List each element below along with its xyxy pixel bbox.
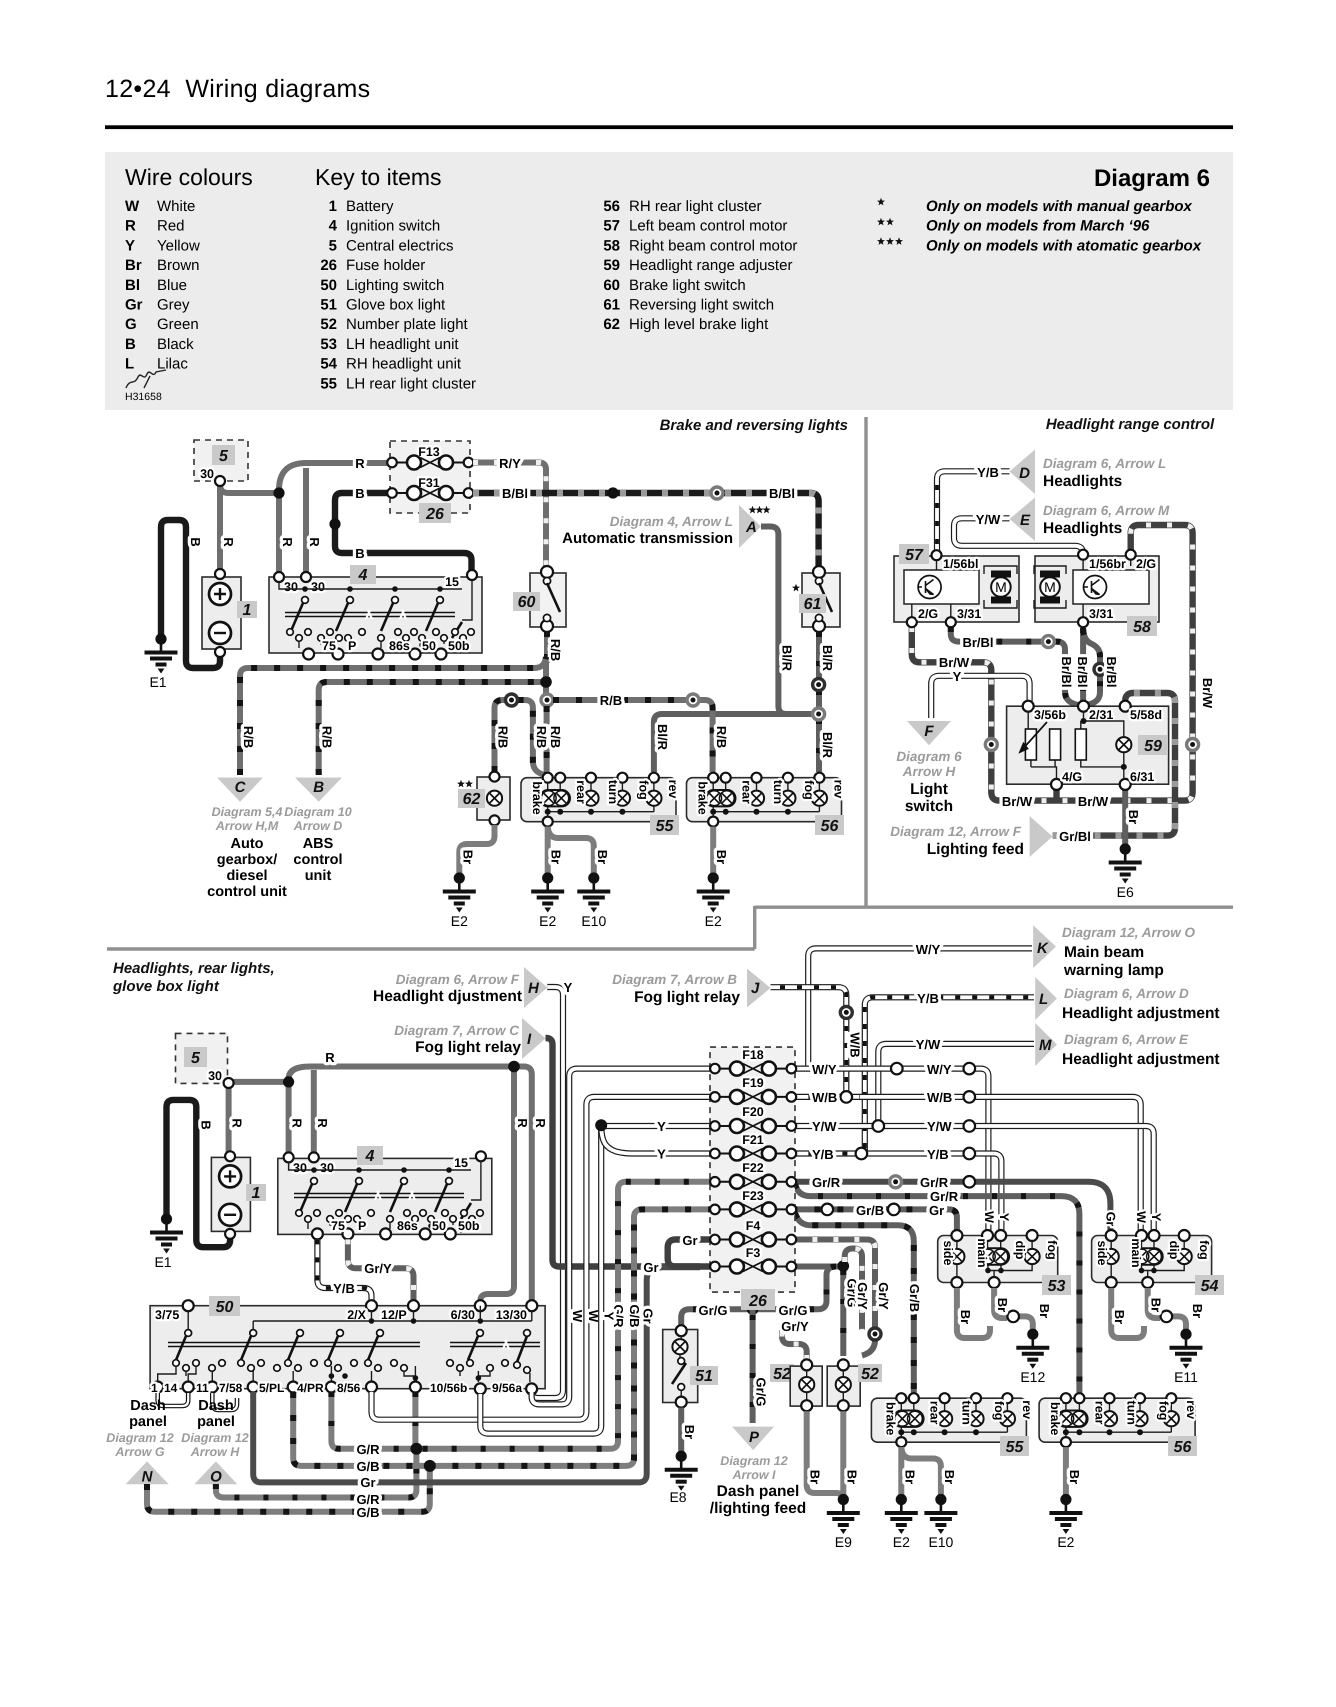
svg-text:panel: panel — [129, 1414, 167, 1430]
svg-text:rev: rev — [1020, 1400, 1034, 1419]
svg-text:58: 58 — [603, 237, 620, 254]
svg-text:Br: Br — [1126, 810, 1141, 824]
svg-text:Fog light relay: Fog light relay — [415, 1039, 521, 1056]
wire Br/Bl loop branch — [1083, 630, 1100, 705]
wire R/B junction down to cluster 55 brake — [544, 706, 550, 772]
svg-text:26: 26 — [425, 506, 444, 523]
svg-text:Gr/G: Gr/G — [699, 1303, 728, 1318]
svg-text:W/B: W/B — [847, 1032, 862, 1057]
headlight unit 54 — [1092, 1236, 1212, 1283]
wire Br cluster 56 lower to E2 — [1063, 1447, 1069, 1495]
svg-text:R/B: R/B — [320, 726, 335, 748]
svg-text:fog: fog — [1197, 1240, 1211, 1259]
svg-text:Diagram 12: Diagram 12 — [181, 1431, 248, 1445]
svg-text:1: 1 — [252, 1185, 261, 1202]
svg-text:R: R — [125, 218, 136, 235]
wire Y/B ignition 75 to lighting switch 2/X — [317, 1239, 371, 1302]
svg-text:Gr: Gr — [125, 297, 143, 314]
svg-text:RH headlight unit: RH headlight unit — [346, 356, 462, 373]
svg-text:turn: turn — [960, 1401, 974, 1425]
svg-text:50: 50 — [422, 639, 436, 653]
svg-text:W/Y: W/Y — [927, 1062, 952, 1077]
wire Br glove box light to ground E8 — [678, 1408, 684, 1452]
svg-text:Lighting switch: Lighting switch — [346, 277, 444, 294]
svg-text:Only on models with atomatic g: Only on models with atomatic gearbox — [926, 237, 1202, 254]
svg-text:fog: fog — [1157, 1401, 1171, 1420]
svg-text:switch: switch — [905, 798, 953, 815]
rear light cluster 56 — [687, 778, 842, 822]
svg-text:62: 62 — [463, 791, 481, 808]
svg-text:main: main — [975, 1238, 989, 1267]
svg-text:turn: turn — [606, 780, 620, 804]
svg-text:4/PR: 4/PR — [297, 1381, 324, 1395]
svg-text:W: W — [1134, 1211, 1148, 1223]
svg-text:R: R — [325, 1050, 335, 1065]
junction dot R — [273, 487, 284, 498]
svg-text:rev: rev — [1184, 1400, 1198, 1419]
svg-text:R/B: R/B — [548, 639, 563, 661]
svg-text:2/G: 2/G — [1136, 557, 1156, 571]
svg-text:E10: E10 — [581, 913, 606, 929]
number plate light 52b — [827, 1366, 860, 1406]
svg-text:White: White — [157, 198, 195, 215]
svg-text:A: A — [745, 519, 757, 536]
svg-text:75: 75 — [322, 639, 336, 653]
central electrics box 5 — [194, 440, 248, 481]
svg-text:Y/B: Y/B — [977, 465, 999, 480]
svg-text:75: 75 — [331, 1219, 345, 1233]
wire R to lighting switch 6/30 — [480, 1067, 514, 1302]
svg-text:warning lamp: warning lamp — [1063, 962, 1164, 979]
svg-text:Headlights, rear lights,: Headlights, rear lights, — [113, 960, 275, 977]
svg-text:Br/Bl: Br/Bl — [1075, 656, 1090, 687]
svg-text:Y: Y — [657, 1119, 666, 1134]
svg-text:58: 58 — [1133, 619, 1151, 636]
headlight unit 53 — [938, 1236, 1058, 1283]
svg-text:F23: F23 — [742, 1189, 764, 1203]
svg-text:E2: E2 — [1057, 1534, 1074, 1550]
svg-text:B: B — [188, 537, 203, 546]
svg-text:50: 50 — [432, 1219, 446, 1233]
wire Br/W stub relay 4/G — [1053, 789, 1059, 801]
svg-text:Gr/R: Gr/R — [920, 1175, 949, 1190]
motor 57 left beam control — [894, 556, 1019, 622]
svg-text:R: R — [515, 1118, 530, 1128]
svg-text:turn: turn — [771, 780, 785, 804]
svg-text:rear: rear — [1093, 1401, 1107, 1425]
svg-text:F22: F22 — [742, 1161, 764, 1175]
svg-text:Grey: Grey — [157, 297, 190, 314]
wire R terminal 30 to junction — [220, 484, 280, 493]
wire Br/Bl motor 58 3/31 to relay 2/31 — [1080, 628, 1086, 701]
svg-text:9/56a: 9/56a — [492, 1381, 522, 1395]
svg-text:RH rear light cluster: RH rear light cluster — [629, 198, 762, 215]
svg-text:R/B: R/B — [600, 693, 622, 708]
wire Br relay 6/31 to ground E6 — [1122, 789, 1128, 845]
wire R central electrics to battery lower — [226, 1086, 232, 1153]
ignition switch 4 lower — [278, 1158, 492, 1234]
arrow A automatic transmission — [749, 506, 757, 514]
arrow B — [295, 778, 342, 802]
svg-text:Gr: Gr — [929, 1203, 944, 1218]
wire R to lighting switch 13/30 — [514, 1067, 532, 1302]
wire R/B to arrow B ABS unit — [319, 682, 543, 775]
svg-text:Brown: Brown — [157, 257, 200, 274]
svg-text:Br: Br — [995, 1298, 1010, 1312]
svg-text:R: R — [307, 537, 322, 547]
ignition internal contacts — [279, 580, 472, 620]
wire Y/B motor 57 to arrow D — [937, 471, 1010, 551]
wire Gr/B fuse F23 branch to cluster 55 rear — [795, 1213, 914, 1394]
svg-text:53: 53 — [1048, 1278, 1066, 1295]
svg-text:Arrow H: Arrow H — [902, 764, 956, 779]
svg-text:Wire colours: Wire colours — [125, 164, 253, 190]
svg-text:E2: E2 — [705, 913, 722, 929]
wire Gr/Y ignition P to lighting switch 12/P — [348, 1239, 414, 1302]
svg-text:Y: Y — [1149, 1213, 1163, 1222]
svg-text:50b: 50b — [448, 639, 470, 653]
svg-text:Br: Br — [1112, 1310, 1127, 1324]
svg-text:E10: E10 — [928, 1534, 953, 1550]
wire R/B junction to cluster 56 brake — [553, 700, 713, 772]
svg-text:Bl/R: Bl/R — [820, 732, 835, 759]
wire Gr/G branch to glove box light 51 and arrow P — [681, 1267, 836, 1327]
lighting switch 50 — [150, 1306, 545, 1389]
svg-text:F13: F13 — [418, 445, 440, 459]
svg-text:turn: turn — [1125, 1401, 1139, 1425]
ignition bottom terminals 75 P 86s 50 50b — [303, 649, 314, 660]
svg-text:B: B — [355, 486, 364, 501]
svg-text:F19: F19 — [742, 1076, 764, 1090]
svg-text:12•24 Wiring diagrams: 12•24 Wiring diagrams — [105, 75, 370, 103]
svg-text:Br/W: Br/W — [939, 655, 970, 670]
svg-text:4: 4 — [329, 218, 338, 235]
svg-text:Glove box light: Glove box light — [346, 297, 446, 314]
wire Gr/Bl lighting feed loop to relay 5/58d — [1053, 693, 1176, 836]
svg-text:Headlights: Headlights — [1043, 473, 1122, 490]
wire Bl/R switch 61 to rear cluster 56 — [816, 632, 822, 772]
svg-text:Diagram 6, Arrow F: Diagram 6, Arrow F — [396, 972, 520, 987]
svg-text:fog: fog — [992, 1401, 1006, 1420]
svg-text:Br: Br — [1067, 1470, 1082, 1484]
svg-text:P: P — [749, 1429, 760, 1446]
svg-text:54: 54 — [1201, 1278, 1219, 1295]
svg-text:G/R: G/R — [356, 1442, 380, 1457]
svg-text:Dash: Dash — [198, 1398, 233, 1414]
wire W/Y fuse F18 branch to arrow K — [808, 948, 1032, 1068]
wire Gr fuse F4 feed hook — [668, 1240, 710, 1267]
svg-text:Right beam control motor: Right beam control motor — [629, 237, 797, 254]
headlight range adjuster 59 — [1007, 706, 1169, 784]
svg-text:F3: F3 — [746, 1246, 761, 1260]
svg-text:R: R — [280, 537, 295, 547]
wire B battery to ground E1 — [167, 1100, 231, 1247]
svg-text:E9: E9 — [835, 1534, 852, 1550]
svg-text:52: 52 — [773, 1366, 791, 1383]
ground E1 — [145, 633, 178, 673]
svg-text:side: side — [941, 1240, 955, 1265]
svg-text:W/Y: W/Y — [916, 942, 941, 957]
svg-text:26: 26 — [748, 1293, 767, 1310]
svg-text:Lilac: Lilac — [157, 356, 188, 373]
wire G/R arrow O to junction — [216, 1454, 417, 1498]
svg-text:51: 51 — [320, 297, 337, 314]
svg-text:J: J — [751, 980, 760, 997]
svg-text:5: 5 — [329, 237, 337, 254]
svg-text:55: 55 — [1006, 1439, 1025, 1456]
svg-text:Diagram 12: Diagram 12 — [106, 1431, 173, 1445]
wire R/B branch to high level brake light 62 — [495, 700, 547, 776]
svg-text:control unit: control unit — [207, 884, 287, 900]
svg-text:30: 30 — [311, 580, 325, 594]
wire Br 62 to ground E2 — [459, 825, 494, 874]
wire R/B brake switch 60 down to junction — [546, 631, 547, 695]
wire Y light switch to relay 3/56b — [931, 676, 1029, 718]
svg-text:G/B: G/B — [627, 1304, 642, 1327]
wire Gr/Y stubs near number plate lights — [782, 1328, 807, 1360]
svg-text:Central electrics: Central electrics — [346, 237, 454, 254]
svg-text:30: 30 — [320, 1161, 334, 1175]
arrow D headlights — [1010, 450, 1036, 495]
svg-text:54: 54 — [320, 356, 337, 373]
svg-text:R: R — [230, 1118, 245, 1128]
svg-text:Automatic transmission: Automatic transmission — [562, 530, 733, 547]
svg-text:E12: E12 — [1020, 1369, 1045, 1385]
wire R/Y fuse F13 to brake switch 60 — [473, 463, 546, 571]
rear light cluster 55 lower — [871, 1398, 1026, 1442]
svg-text:W/B: W/B — [812, 1090, 837, 1105]
svg-text:fog: fog — [802, 780, 816, 799]
svg-text:Diagram 5,4: Diagram 5,4 — [212, 805, 283, 819]
svg-text:Br: Br — [844, 1470, 859, 1484]
svg-text:R: R — [290, 1118, 305, 1128]
fuse holder 26 lower — [710, 1047, 795, 1292]
svg-text:6/30: 6/30 — [451, 1308, 475, 1322]
svg-text:Gr/R: Gr/R — [930, 1189, 959, 1204]
wire Y lighting switch 10/56b to fuses F20 F21 — [480, 1125, 601, 1433]
svg-text:3/31: 3/31 — [957, 607, 981, 621]
wire Gr/G junction down to arrow P — [750, 1309, 756, 1423]
wire Y/B fuse F21 to headlight 53 dip — [791, 1154, 1001, 1234]
svg-text:4: 4 — [365, 1148, 375, 1165]
svg-text:Light: Light — [910, 781, 948, 798]
svg-text:Gr/Bl: Gr/Bl — [1059, 829, 1091, 844]
svg-text:61: 61 — [804, 596, 822, 613]
svg-text:R/B: R/B — [548, 726, 563, 748]
svg-text:Gr/B: Gr/B — [907, 1284, 922, 1312]
svg-text:M: M — [995, 579, 1007, 595]
svg-text:Br: Br — [714, 850, 729, 864]
svg-text:62: 62 — [603, 316, 620, 333]
svg-text:M: M — [1039, 1037, 1052, 1054]
svg-text:Fuse holder: Fuse holder — [346, 257, 425, 274]
svg-text:Battery: Battery — [346, 198, 394, 215]
svg-text:10/56b: 10/56b — [430, 1381, 467, 1395]
svg-text:Gr/B: Gr/B — [856, 1203, 884, 1218]
svg-text:1: 1 — [243, 602, 252, 619]
svg-text:K: K — [1037, 940, 1049, 957]
svg-text:brake: brake — [530, 781, 544, 814]
svg-text:Headlight range adjuster: Headlight range adjuster — [629, 257, 792, 274]
wire B battery negative to ground E1 — [161, 520, 220, 668]
svg-text:57: 57 — [905, 547, 924, 564]
svg-text:Br: Br — [549, 850, 564, 864]
svg-text:57: 57 — [603, 218, 620, 235]
svg-text:86s: 86s — [397, 1219, 418, 1233]
svg-text:Gr: Gr — [360, 1475, 375, 1490]
svg-text:F: F — [924, 723, 934, 740]
svg-text:LH rear light cluster: LH rear light cluster — [346, 375, 476, 392]
wire Gr/R fuse F22 branch to cluster 56 rear — [795, 1184, 1079, 1394]
ground E1 lower — [150, 1213, 183, 1253]
svg-text:Y/B: Y/B — [917, 991, 939, 1006]
svg-text:Dash: Dash — [130, 1398, 165, 1414]
battery 1 — [202, 577, 241, 649]
svg-text:R/B: R/B — [241, 726, 256, 748]
svg-text:G: G — [125, 316, 137, 333]
svg-text:B: B — [125, 336, 136, 353]
svg-text:5/58d: 5/58d — [1130, 708, 1162, 722]
svg-text:fog: fog — [1045, 1240, 1059, 1259]
svg-text:Gr/Y: Gr/Y — [781, 1319, 809, 1334]
svg-text:Y/W: Y/W — [927, 1119, 952, 1134]
svg-text:59: 59 — [603, 257, 620, 274]
svg-text:Arrow H: Arrow H — [190, 1445, 241, 1459]
svg-text:ABS: ABS — [303, 836, 334, 852]
svg-text:E1: E1 — [154, 1254, 171, 1270]
svg-text:G/B: G/B — [356, 1505, 379, 1520]
svg-text:rev: rev — [666, 780, 680, 799]
wire Gr arrow I to fuse F3 — [546, 1038, 711, 1267]
wire G/B lighting switch 5/PL to fuse F23 — [293, 1209, 710, 1466]
svg-text:5: 5 — [191, 1050, 201, 1067]
wire Br cluster 56 to E2 — [710, 827, 716, 874]
wire R to ignition second 30 — [303, 468, 309, 575]
wire Gr/B fuse F23 to headlight 53 side — [791, 1209, 957, 1233]
svg-text:Diagram 12, Arrow O: Diagram 12, Arrow O — [1062, 925, 1196, 940]
svg-text:12/P: 12/P — [381, 1308, 407, 1322]
svg-text:Arrow I: Arrow I — [731, 1468, 776, 1482]
svg-text:Y/W: Y/W — [812, 1119, 837, 1134]
svg-text:15: 15 — [454, 1156, 468, 1170]
svg-text:Diagram 7, Arrow C: Diagram 7, Arrow C — [394, 1023, 519, 1038]
svg-text:Diagram 6, Arrow E: Diagram 6, Arrow E — [1064, 1032, 1189, 1047]
svg-text:dip: dip — [1167, 1241, 1181, 1260]
svg-text:30: 30 — [293, 1161, 307, 1175]
svg-text:R/B: R/B — [714, 726, 729, 748]
wire Br 52a to ground E9 — [807, 1411, 844, 1499]
svg-text:Y/W: Y/W — [916, 1037, 941, 1052]
svg-text:F21: F21 — [742, 1133, 764, 1147]
svg-text:2/X: 2/X — [347, 1308, 366, 1322]
svg-text:Gr/Y: Gr/Y — [876, 1282, 891, 1310]
svg-text:E11: E11 — [1174, 1369, 1198, 1385]
wire Br cluster 55 to E10 — [548, 827, 594, 874]
svg-text:side: side — [1095, 1240, 1109, 1265]
wire Y/W fuse F20 to headlight 54 dip — [791, 1126, 1153, 1233]
svg-text:Diagram 6: Diagram 6 — [896, 749, 962, 764]
svg-text:Diagram 10: Diagram 10 — [284, 805, 351, 819]
svg-text:B: B — [198, 1120, 213, 1129]
wire Y/W motor 58 to arrow E — [954, 518, 1083, 555]
svg-text:R/B: R/B — [496, 726, 511, 748]
svg-text:Brake light switch: Brake light switch — [629, 277, 746, 294]
svg-text:C: C — [235, 779, 247, 796]
svg-text:E8: E8 — [669, 1489, 686, 1505]
svg-text:Br: Br — [902, 1470, 917, 1484]
svg-text:53: 53 — [320, 336, 337, 353]
central electrics box 5 lower — [176, 1033, 228, 1083]
svg-text:gearbox/: gearbox/ — [217, 852, 277, 868]
svg-text:P: P — [348, 639, 356, 653]
svg-text:30: 30 — [208, 1069, 222, 1083]
svg-text:W/Y: W/Y — [812, 1062, 837, 1077]
svg-text:50: 50 — [216, 1299, 234, 1316]
wire Gr lighting switch 7/58 to fuse F3 — [253, 1267, 700, 1482]
svg-text:B/Bl: B/Bl — [502, 486, 528, 501]
wire R junction up to fuse feed — [279, 463, 390, 490]
svg-text:rev: rev — [832, 780, 846, 799]
svg-text:59: 59 — [1144, 738, 1162, 755]
wire Gr fuse F4 output — [791, 1240, 875, 1329]
svg-text:Gr/R: Gr/R — [812, 1175, 841, 1190]
svg-text:Diagram 12: Diagram 12 — [720, 1454, 787, 1468]
svg-text:Y: Y — [997, 1213, 1011, 1222]
svg-text:Lighting feed: Lighting feed — [927, 841, 1024, 858]
svg-text:L: L — [1039, 991, 1048, 1008]
wire Br/Bl motor 57 3/31 to relay 2/31 — [951, 627, 1078, 705]
svg-text:Ignition switch: Ignition switch — [346, 218, 440, 235]
svg-text:60: 60 — [603, 277, 620, 294]
svg-text:Br: Br — [125, 257, 142, 274]
reversing light switch 61 — [802, 573, 840, 627]
svg-text:R: R — [221, 537, 236, 547]
svg-text:Dash panel: Dash panel — [717, 1483, 800, 1500]
svg-text:Br: Br — [1037, 1304, 1052, 1318]
wire Br cluster 55 to E2 — [545, 827, 551, 874]
svg-text:7/58: 7/58 — [219, 1381, 243, 1395]
wire Y junction to F21 — [601, 1125, 712, 1153]
svg-text:R: R — [355, 456, 365, 471]
svg-text:Br/Bl: Br/Bl — [1104, 656, 1119, 687]
svg-text:Diagram 4, Arrow L: Diagram 4, Arrow L — [610, 514, 733, 529]
svg-text:56: 56 — [1174, 1439, 1192, 1456]
arrow E headlights — [1010, 498, 1036, 542]
KEY PANEL — [105, 152, 1233, 410]
svg-text:Gr/G: Gr/G — [779, 1303, 808, 1318]
svg-text:2/G: 2/G — [918, 607, 938, 621]
svg-text:30: 30 — [200, 467, 214, 481]
arrow P dash panel lighting feed — [732, 1427, 774, 1451]
svg-text:Y/W: Y/W — [976, 512, 1001, 527]
svg-text:E2: E2 — [539, 913, 556, 929]
svg-text:Br/Bl: Br/Bl — [962, 635, 993, 650]
svg-text:L: L — [125, 356, 134, 373]
svg-text:52: 52 — [861, 1366, 879, 1383]
wire G/B arrow N to junction — [147, 1471, 430, 1512]
wire Br cluster 55 lower to E2 — [898, 1447, 904, 1495]
wire Y/W fuse F20 branch to arrow M — [878, 1044, 1034, 1126]
ignition switch 4 — [269, 577, 482, 653]
svg-text:56: 56 — [821, 818, 839, 835]
svg-text:Auto: Auto — [230, 836, 263, 852]
svg-text:Br: Br — [595, 850, 610, 864]
svg-text:Headlight adjustment: Headlight adjustment — [1062, 1051, 1220, 1068]
svg-text:W: W — [982, 1211, 996, 1223]
arrow F light switch — [907, 721, 951, 745]
high level brake light 62 — [477, 777, 510, 820]
svg-text:Br: Br — [942, 1470, 957, 1484]
